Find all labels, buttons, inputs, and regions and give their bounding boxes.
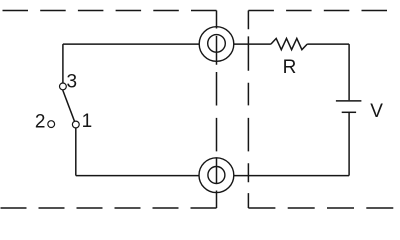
wire: right vertical, top-right corner down to battery + plate: [348, 44, 350, 100]
svg-text:2: 2: [35, 112, 46, 133]
svg-text:1: 1: [82, 111, 93, 132]
connector J2 (bottom) outer circle: [199, 158, 234, 193]
dashed enclosure left: right edge segments (through connectors): [216, 11, 218, 209]
svg-text:R: R: [283, 57, 297, 78]
dashed enclosure left: bottom edge: [1, 207, 217, 209]
battery V: long (+) plate: [336, 100, 362, 102]
svg-text:3: 3: [67, 71, 78, 92]
switch terminal 2 circle: [48, 121, 55, 128]
wire: vertical from switch terminal 1 down to bottom wire: [75, 128, 77, 176]
wire: top connector to resistor lead: [234, 43, 271, 45]
wire: top horizontal (corner to top connector): [63, 43, 199, 45]
dashed enclosure right: bottom edge: [248, 207, 399, 209]
dashed enclosure right: left edge segments: [247, 11, 249, 209]
connector J2 (bottom) inner circle: [208, 167, 225, 184]
connector J1 (top) outer circle: [199, 27, 234, 62]
wire: vertical from top-left corner down to switch pole 3: [62, 44, 64, 83]
wire: resistor to top-right corner: [307, 43, 349, 45]
switch pole terminal 3 circle: [60, 83, 67, 90]
dashed enclosure right: top edge: [248, 10, 395, 12]
wire: battery - plate down to bottom-right corner: [348, 112, 350, 175]
switch arm: pole 3 to throw 1: [63, 90, 75, 121]
resistor R: [271, 38, 307, 49]
wire: bottom horizontal (bottom-right corner to bottom connector): [234, 175, 349, 177]
dashed enclosure left: top edge: [3, 10, 217, 12]
wire: bottom connector to switch branch corner: [76, 175, 199, 177]
switch terminal 1 circle: [72, 121, 79, 128]
battery V: short (-) plate: [342, 111, 356, 113]
svg-text:V: V: [370, 101, 383, 122]
connector J1 (top) inner circle: [208, 35, 226, 53]
